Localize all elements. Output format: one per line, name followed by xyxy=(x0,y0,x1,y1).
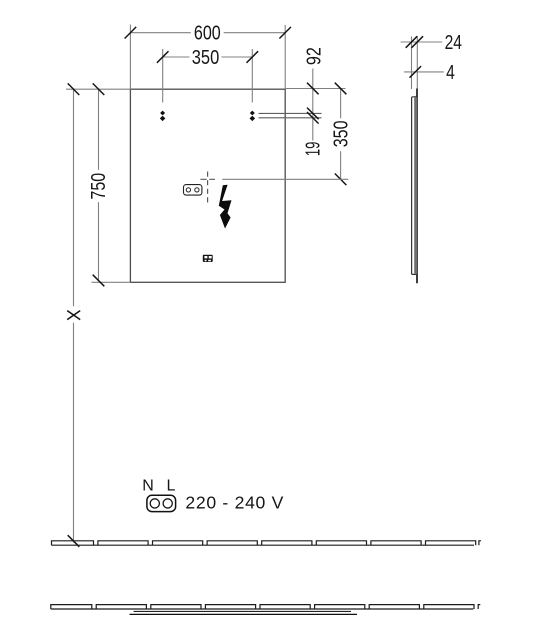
leader line lower hole xyxy=(259,117,322,119)
svg-text:750: 750 xyxy=(88,173,110,200)
mirror bottom edge extension to left xyxy=(92,281,131,283)
power socket symbol xyxy=(147,495,176,511)
dim X label xyxy=(67,311,80,320)
dim 24 extension line right xyxy=(416,37,418,89)
centerline leader to dim xyxy=(222,178,348,180)
svg-text:220 - 240 V: 220 - 240 V xyxy=(185,493,284,513)
dim 350 top extension line left xyxy=(162,49,164,103)
side view glass pane line xyxy=(416,89,418,284)
dim 24 tick right xyxy=(412,36,424,48)
leader line upper hole xyxy=(259,112,322,114)
dim 24 extension line left xyxy=(411,37,413,90)
dim 4 line xyxy=(404,71,444,73)
dim 92 / 19 vertical line xyxy=(312,69,314,141)
mounting hole left (two diamonds) xyxy=(160,111,166,122)
svg-text:L: L xyxy=(166,477,175,494)
dim 24 line xyxy=(401,41,443,43)
switch icon bottom of mirror xyxy=(203,255,213,262)
dim 600 extension line left xyxy=(129,25,131,90)
dim X line xyxy=(73,89,75,542)
dim 600 tick left xyxy=(125,27,137,39)
dim 350 top extension line right xyxy=(251,49,253,103)
dim 4 tick xyxy=(410,66,422,78)
dim 350 top line xyxy=(163,56,253,58)
svg-text:600: 600 xyxy=(194,22,221,44)
centerline cross horizontal dashes xyxy=(200,178,215,180)
floor line 2 base xyxy=(51,608,474,610)
side view body shading xyxy=(414,97,417,273)
svg-text:19: 19 xyxy=(303,142,325,157)
mirror top edge extension to right xyxy=(285,88,345,90)
floor line 1 planks xyxy=(52,541,482,545)
floor line 2 planks xyxy=(51,605,481,609)
dim 600 tick right xyxy=(279,27,291,39)
centerline cross vertical dashed xyxy=(207,172,209,205)
dim 19 tick upper xyxy=(307,108,319,120)
dim 350 top tick right xyxy=(247,51,259,63)
svg-text:24: 24 xyxy=(445,32,462,54)
floor line 1 base xyxy=(52,544,475,546)
dim 350 right tick bottom xyxy=(335,174,347,186)
svg-text:350: 350 xyxy=(330,120,352,147)
floor line 2 underline a xyxy=(134,610,351,612)
dim 600 line xyxy=(130,32,285,34)
dim 750 tick bottom xyxy=(93,275,105,287)
dim 350 right tick top xyxy=(335,83,347,95)
svg-text:N: N xyxy=(142,477,154,494)
dim 600 extension line right xyxy=(284,25,286,89)
dim 19 tick lower xyxy=(307,112,319,124)
socket symbol in mirror xyxy=(184,185,202,196)
svg-text:4: 4 xyxy=(446,62,455,84)
dim 350 right line xyxy=(340,89,342,180)
dim X tick bottom xyxy=(68,535,80,547)
dim 92 tick top xyxy=(307,83,319,95)
dim 24 tick left xyxy=(406,36,418,48)
svg-text:350: 350 xyxy=(192,47,220,69)
mirror top edge extension to left xyxy=(66,88,130,90)
mirror front view outline xyxy=(130,89,285,282)
mounting hole right (two diamonds) xyxy=(250,111,256,122)
dim 750 line xyxy=(98,89,100,280)
lightning bolt xyxy=(219,185,232,229)
dim 750 tick top xyxy=(93,83,105,95)
side view body xyxy=(412,97,417,275)
floor line 2 underline b xyxy=(130,613,358,615)
dim X tick top xyxy=(68,83,80,95)
svg-text:92: 92 xyxy=(303,47,325,65)
dim 350 top tick left xyxy=(157,51,169,63)
